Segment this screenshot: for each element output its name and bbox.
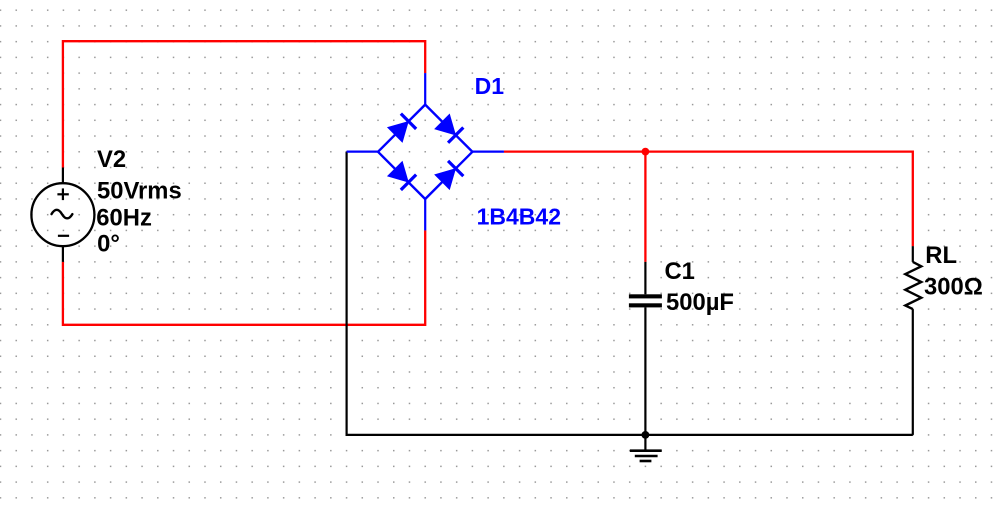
svg-text:300Ω: 300Ω (924, 274, 983, 301)
V2 plus sign (57, 193, 68, 195)
wire: C1 bottom to ground rail (black) (644, 307, 646, 435)
svg-text:60Hz: 60Hz (96, 205, 152, 232)
diode D1c (anode left vertex, cathode bottom vertex) (387, 161, 417, 191)
C1 bottom plate (629, 303, 662, 307)
ground bar 1 (630, 449, 662, 452)
wire: bridge output to RL top (red, node +) (504, 152, 913, 247)
wire: V2 bottom terminal to bridge bottom (red, down-right-up) (63, 230, 425, 324)
pin: C1 top lead (644, 262, 646, 294)
svg-text:500µF: 500µF (666, 289, 734, 316)
wire: node + junction to C1 top (red) (644, 152, 646, 262)
svg-text:1B4B42: 1B4B42 (477, 204, 561, 230)
diode D1b (anode top vertex, cathode right vertex) (434, 114, 464, 144)
wire: RL bottom to ground rail (black) (912, 309, 914, 435)
ground symbol (630, 435, 662, 461)
V2 body circle (31, 183, 94, 246)
RL zigzag body (905, 262, 921, 309)
svg-text:D1: D1 (475, 73, 505, 99)
V2 minus sign (58, 235, 69, 237)
svg-text:RL: RL (925, 242, 957, 269)
pin: V2 top lead (62, 168, 64, 184)
diode bridge D1 (347, 73, 504, 230)
pin: V2 bottom lead (62, 246, 64, 262)
pin: bridge top lead (424, 73, 426, 105)
diode D1d (anode bottom vertex, cathode right vertex) (434, 160, 464, 190)
wire: bridge left terminal to ground rail (black) (347, 152, 913, 435)
ground stem (644, 435, 646, 450)
capacitor C1 (629, 262, 662, 308)
pin: bridge left lead (347, 151, 378, 153)
svg-text:C1: C1 (665, 258, 695, 285)
bridge diamond outline (378, 105, 472, 199)
ac source V2 (31, 168, 94, 262)
diode D1a (anode left vertex, cathode top vertex) (387, 113, 417, 143)
ground bar 2 (635, 455, 658, 458)
resistor RL (905, 246, 921, 309)
ground bar 3 (640, 460, 652, 463)
junction: node + (red dot) (642, 148, 650, 156)
pin: RL top lead (912, 246, 914, 262)
junction: ground node (black dot) (642, 431, 650, 439)
C1 top plate (629, 294, 662, 298)
V2 sine wave (52, 210, 73, 219)
svg-text:50Vrms: 50Vrms (97, 178, 182, 205)
wire: V2 top terminal to bridge top (red, up-right-down) (63, 41, 425, 167)
svg-text:0°: 0° (97, 230, 120, 257)
pin: bridge right lead (472, 151, 504, 153)
pin: bridge bottom lead (424, 199, 426, 230)
svg-text:V2: V2 (97, 146, 126, 173)
